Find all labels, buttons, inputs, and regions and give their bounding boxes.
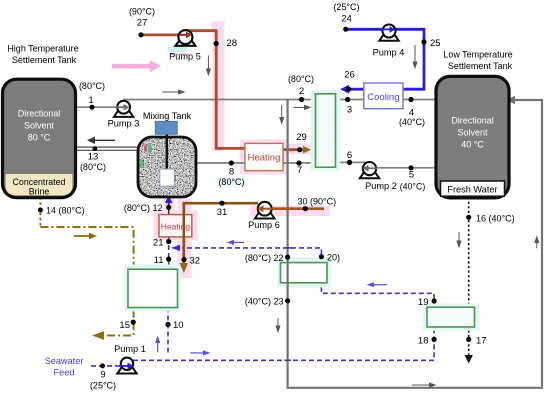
label pump 2 — [365, 181, 397, 191]
svg-text:18: 18 — [418, 336, 429, 347]
label 19 — [418, 297, 429, 308]
label 32 — [190, 256, 201, 267]
wire seawater dash overlay crossing gray upper — [285, 247, 292, 249]
mixing tank shaft — [166, 133, 168, 172]
node 14 — [38, 208, 43, 213]
cooling box — [364, 83, 403, 109]
node 32 — [181, 257, 186, 262]
cyan mark below pump 5 — [168, 47, 187, 52]
label 40C 23 — [245, 297, 284, 307]
node 24 — [343, 27, 348, 32]
svg-text:Pump 6: Pump 6 — [248, 220, 280, 230]
pump 5 — [175, 30, 195, 46]
svg-text:Solvent: Solvent — [457, 127, 488, 137]
wire line 6 HX2 to pump 2 — [336, 161, 370, 163]
label seawater feed — [45, 356, 84, 378]
svg-text:5: 5 — [409, 170, 414, 181]
svg-text:17: 17 — [476, 336, 487, 347]
node 16 — [466, 215, 471, 220]
svg-text:(80°C): (80°C) — [218, 177, 244, 187]
label 31 — [217, 207, 228, 218]
pink dashes under pump 5 label — [170, 54, 188, 56]
wire blue dashed vertical 21 11 to HX3 — [168, 237, 170, 269]
node 15 — [131, 320, 136, 325]
node 3 — [345, 97, 350, 102]
svg-text:1: 1 — [88, 95, 93, 106]
svg-text:Pump 5: Pump 5 — [169, 52, 201, 62]
svg-text:40 °C: 40 °C — [461, 139, 484, 149]
pump 4 — [379, 25, 398, 41]
label 30 90C — [298, 197, 337, 207]
svg-text:(40°C): (40°C) — [400, 182, 426, 192]
node 1 — [90, 105, 95, 110]
svg-text:Brine: Brine — [29, 186, 50, 196]
heat exchanger HX4 — [278, 257, 332, 288]
svg-text:Directional: Directional — [18, 108, 61, 118]
svg-text:25: 25 — [430, 38, 441, 49]
cyan mark below node 8 label — [218, 178, 245, 187]
label pump 6 — [248, 220, 280, 230]
label 80C 12 — [124, 203, 163, 213]
label 10 — [173, 320, 184, 331]
heat exchanger HX5 — [423, 304, 480, 332]
label 26 — [344, 70, 355, 81]
svg-text:(80°C) 12: (80°C) 12 — [124, 203, 163, 213]
svg-text:Seawater: Seawater — [45, 356, 84, 366]
arrow down beside dotted line 16 — [456, 232, 461, 248]
label 29 — [296, 132, 307, 143]
arrow right above line 1 — [162, 89, 186, 94]
highlight band at node 12 arrow — [164, 197, 175, 212]
svg-text:32: 32 — [190, 256, 201, 267]
arrow left above line 13 — [87, 137, 115, 144]
label 14 80C — [46, 206, 85, 216]
node 5 — [408, 165, 413, 170]
svg-text:16 (40°C): 16 (40°C) — [476, 214, 515, 224]
pink highlight arrow top left — [112, 60, 161, 72]
node 28 — [214, 41, 219, 46]
pump 3 — [114, 101, 133, 117]
arrow blue right above pump 1 outlet — [190, 350, 211, 355]
pipe line 13 double line mixing tank to tank 1 — [75, 147, 138, 150]
wire line 32 overlay on heating box 2 — [183, 203, 186, 250]
svg-text:20): 20) — [327, 253, 340, 263]
svg-text:Feed: Feed — [54, 368, 75, 378]
label 20 — [327, 253, 340, 263]
svg-text:Cooling: Cooling — [367, 92, 399, 103]
arrow down left of gray vertical top — [279, 105, 284, 125]
highlight band around pump 6 line 30 — [250, 206, 330, 217]
arrow right above bottom gray line — [412, 382, 437, 387]
node 23 — [285, 298, 290, 303]
svg-text:15: 15 — [119, 320, 130, 331]
arrow down beside line 28 — [206, 55, 211, 76]
svg-text:13: 13 — [88, 152, 99, 163]
label 28 — [227, 38, 238, 49]
wire line 30 overlay crossing gray — [281, 207, 295, 210]
tank T1 high temperature settlement tank — [3, 79, 76, 198]
label 7 — [297, 165, 302, 176]
wire gray recycle loop node 2 down bottom right up into tank — [288, 96, 542, 388]
wire olive dash-dot brine line 14 15 — [40, 197, 133, 322]
node 17 — [466, 337, 471, 342]
node 4 — [408, 97, 413, 102]
heating box 1 — [245, 143, 283, 170]
svg-text:6: 6 — [347, 150, 352, 161]
svg-text:(25°C): (25°C) — [90, 381, 116, 391]
label 90C 27 — [129, 7, 155, 29]
node 19 — [432, 298, 437, 303]
label 80C 22 — [245, 253, 284, 263]
arrow up near right gray edge — [534, 235, 539, 248]
wire blue line 26 arrow into HX2 — [340, 85, 364, 94]
label 16 40C — [476, 214, 515, 224]
svg-text:29: 29 — [296, 132, 307, 143]
wire line 8-7 mixing tank to HX2 — [196, 162, 336, 164]
svg-text:High Temperature: High Temperature — [7, 44, 78, 54]
svg-text:Mixing Tank: Mixing Tank — [143, 111, 192, 121]
label 25C 24 — [333, 2, 359, 25]
label 6 — [347, 150, 352, 161]
node 30 — [303, 206, 308, 211]
label 21 — [153, 238, 164, 249]
node 26 — [346, 87, 351, 92]
heating box 2 — [159, 215, 192, 237]
label 4 40C — [399, 108, 425, 128]
label 3 — [347, 105, 352, 116]
svg-text:(80°C): (80°C) — [79, 81, 105, 91]
svg-text:(40°C) 23: (40°C) 23 — [245, 297, 284, 307]
label pump 5 — [169, 52, 201, 62]
arrow blue up beside node 10 line — [155, 336, 160, 353]
svg-text:Settlement Tank: Settlement Tank — [12, 55, 77, 65]
svg-text:Settlement Tank: Settlement Tank — [448, 61, 513, 71]
svg-text:(40°C): (40°C) — [399, 117, 425, 127]
svg-text:80 °C: 80 °C — [28, 132, 51, 142]
label 25 — [430, 38, 441, 49]
node 9 — [100, 363, 105, 368]
label 13 80C — [80, 152, 106, 173]
label pump 3 — [108, 119, 140, 129]
arrow olive direction right — [74, 233, 97, 240]
label pump 1 — [114, 344, 146, 354]
wire line 1 tank to pump 3 — [75, 106, 118, 108]
wire red line 27 to pump 5 — [141, 34, 186, 37]
wire red line pump5 to corner to heating 1 — [186, 31, 246, 149]
label pump 4 — [373, 48, 405, 58]
svg-text:Concentrated: Concentrated — [13, 177, 66, 187]
pump 6 — [255, 202, 275, 219]
svg-text:Pump 3: Pump 3 — [108, 119, 140, 129]
arrow blue left above seawater line near 21 — [227, 240, 244, 245]
wire line 5 pump 2 to low temp tank — [375, 167, 436, 169]
svg-text:Fresh Water: Fresh Water — [447, 185, 497, 195]
node 27 — [139, 32, 144, 37]
wire blue dashed HX3 bottom node 10 down — [167, 308, 169, 355]
node 31 — [219, 201, 224, 206]
pump 2 — [360, 162, 379, 178]
highlight halo around heating box 2 — [154, 211, 198, 241]
wire blue line 24 25 26 — [346, 29, 424, 89]
pump 1 — [117, 358, 136, 374]
svg-text:(80°C): (80°C) — [288, 74, 314, 84]
svg-text:(25°C): (25°C) — [333, 2, 359, 12]
node 20 — [319, 254, 324, 259]
svg-text:(80°C) 22: (80°C) 22 — [245, 253, 284, 263]
highlight band around line 28 vertical — [213, 21, 225, 151]
node 29 — [297, 147, 302, 152]
label high temperature settlement tank — [7, 44, 78, 66]
node 21 — [166, 239, 171, 244]
highlight halo around heating box 1 — [240, 140, 287, 175]
wire seawater dash overlay crossing gray lower — [285, 359, 292, 361]
mixing tank impeller box — [160, 169, 175, 186]
svg-text:(80°C): (80°C) — [80, 162, 106, 172]
highlight band around node 29 line — [283, 144, 312, 155]
label 80C above 2 — [288, 74, 314, 97]
label 18 — [418, 336, 429, 347]
label 15 — [119, 320, 130, 331]
arrow down beside line 25 — [412, 45, 417, 69]
junction dot on line 13 — [93, 146, 98, 151]
node 2 — [299, 97, 304, 102]
svg-text:Directional: Directional — [451, 115, 494, 125]
svg-text:28: 28 — [227, 38, 238, 49]
wire blue arrow node 12 into mixing tank — [165, 196, 173, 209]
arrow right into HX2 near node 2 — [294, 105, 312, 110]
svg-text:7: 7 — [297, 165, 302, 176]
svg-text:24: 24 — [341, 14, 352, 25]
highlight band around pump5 outlet line — [211, 23, 216, 31]
svg-text:11: 11 — [154, 255, 164, 266]
node 25 — [421, 39, 426, 44]
node 7 — [296, 160, 301, 165]
svg-text:14 (80°C): 14 (80°C) — [46, 206, 85, 216]
svg-text:26: 26 — [344, 70, 355, 81]
node 22 — [285, 255, 290, 260]
svg-text:Pump 1: Pump 1 — [114, 344, 146, 354]
svg-text:9: 9 — [100, 370, 105, 381]
node 12 — [166, 205, 171, 210]
wire olive line below 15 with arrow — [92, 322, 134, 340]
label 80C 1 — [79, 81, 105, 106]
wire black segment node 12 to heating 2 — [168, 207, 170, 216]
heat exchanger HX2 — [311, 90, 341, 171]
mixing tank motor — [155, 121, 177, 134]
svg-text:10: 10 — [173, 320, 184, 331]
svg-text:Pump 4: Pump 4 — [373, 48, 405, 58]
wire blue dashed seawater inlet to pump 1 — [91, 365, 121, 367]
svg-text:8: 8 — [229, 167, 234, 178]
svg-text:31: 31 — [217, 207, 228, 218]
wire blue dashed node 20 up and left to node 21 — [171, 245, 321, 263]
wire black dotted line 16 17 fresh water out — [465, 197, 473, 364]
svg-text:Solvent: Solvent — [24, 120, 55, 130]
svg-text:3: 3 — [347, 105, 352, 116]
highlight band around line 31 32 vertical — [178, 199, 192, 278]
label 17 — [476, 336, 487, 347]
svg-text:Low Temperature: Low Temperature — [443, 50, 512, 60]
node 8 — [229, 160, 234, 165]
label 9 25C — [90, 370, 116, 391]
svg-text:Heating: Heating — [161, 222, 191, 232]
arrow blue left above line 19-20 — [367, 282, 388, 287]
node 18 — [432, 337, 437, 342]
wire brown line 30 to pump 6 — [266, 207, 324, 210]
heat exchanger HX3 — [125, 265, 181, 312]
wire red line 29 heating to HX2 — [282, 146, 311, 153]
svg-text:30 (90°C): 30 (90°C) — [298, 197, 337, 207]
label 5 40C — [400, 170, 426, 192]
svg-text:Pump 2: Pump 2 — [365, 181, 397, 191]
wire line 1-2-3-4 pump3 outlet to low temp tank — [124, 99, 436, 101]
tank T2 low temperature settlement tank — [436, 76, 509, 197]
node 6 — [347, 160, 352, 165]
wire blue dashed pump1 outlet to node 18 and HX5 — [133, 328, 434, 361]
node 11 — [166, 257, 171, 262]
svg-text:19: 19 — [418, 297, 429, 308]
svg-text:2: 2 — [299, 86, 304, 97]
wire blue dashed node 19 to node 20 HX4 — [321, 283, 434, 307]
svg-text:27: 27 — [137, 18, 148, 29]
svg-text:(90°C): (90°C) — [129, 7, 155, 17]
svg-text:21: 21 — [153, 238, 164, 249]
label low temperature settlement tank — [443, 50, 512, 72]
mixing tank artifact marks — [140, 145, 152, 168]
mixing tank — [138, 137, 196, 197]
label mixing tank — [143, 111, 192, 121]
label 11 — [154, 255, 164, 266]
arrow down on gray vertical mid — [275, 318, 280, 333]
wire brown line pump6 outlet 31 to corner 32 down — [180, 203, 258, 273]
node 10 — [165, 322, 170, 327]
label 8 80C — [218, 167, 244, 188]
svg-text:Heating: Heating — [248, 153, 281, 164]
